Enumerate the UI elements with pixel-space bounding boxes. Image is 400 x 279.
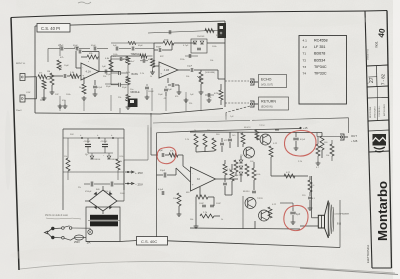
- svg-text:T4: T4: [303, 72, 307, 76]
- svg-text:1N4148: 1N4148: [197, 36, 205, 38]
- svg-text:+ 25V: + 25V: [135, 171, 143, 175]
- svg-text:– 25V: – 25V: [135, 183, 143, 187]
- svg-text:4.1: 4.1: [303, 39, 308, 43]
- svg-text:TIP33: TIP33: [257, 198, 263, 200]
- svg-text:RC4558: RC4558: [314, 39, 328, 43]
- svg-text:4.1B: 4.1B: [164, 68, 170, 72]
- svg-text:1µF: 1µF: [168, 89, 172, 91]
- svg-text:63µF: 63µF: [106, 74, 112, 76]
- svg-text:10µF: 10µF: [64, 65, 70, 67]
- svg-text:25t: 25t: [78, 186, 81, 189]
- svg-text:8.2k: 8.2k: [120, 156, 124, 158]
- svg-text:1M: 1M: [47, 71, 50, 73]
- svg-text:4µF: 4µF: [296, 213, 301, 216]
- svg-text:APPROVATO: APPROVATO: [383, 103, 386, 116]
- svg-text:BD678: BD678: [314, 52, 325, 56]
- svg-text:Montarbo: Montarbo: [375, 181, 390, 241]
- svg-text:30µF: 30µF: [234, 175, 239, 177]
- svg-text:47µF: 47µF: [300, 139, 306, 141]
- svg-text:TREBLE: TREBLE: [131, 53, 141, 56]
- svg-text:1M: 1M: [47, 79, 50, 81]
- svg-text:LOW: LOW: [26, 92, 31, 94]
- svg-text:100P: 100P: [216, 203, 221, 205]
- svg-text:ELETTRONICA: ELETTRONICA: [366, 245, 370, 263]
- svg-text:10P: 10P: [55, 94, 59, 96]
- svg-text:+: +: [192, 183, 194, 187]
- svg-text:TIP34C: TIP34C: [314, 65, 327, 69]
- svg-text:T3: T3: [303, 65, 307, 69]
- svg-text:OGGETTO: OGGETTO: [368, 49, 370, 60]
- svg-text:63µF: 63µF: [138, 45, 144, 47]
- svg-text:T1: T1: [303, 52, 307, 56]
- svg-text:63µF: 63µF: [73, 45, 79, 47]
- svg-text:ECHO: ECHO: [261, 78, 272, 82]
- svg-text:OUT: OUT: [351, 134, 357, 138]
- svg-text:LOUDSPEAKER: LOUDSPEAKER: [334, 213, 350, 216]
- svg-text:INPUT H.: INPUT H.: [16, 63, 26, 65]
- svg-text:15k: 15k: [64, 156, 67, 158]
- svg-text:50V: 50V: [70, 134, 74, 136]
- svg-text:100µF: 100µF: [148, 91, 154, 93]
- svg-text:+15: +15: [303, 126, 308, 130]
- svg-text:4.7µF: 4.7µF: [183, 45, 189, 47]
- svg-text:1µF: 1µF: [102, 66, 106, 68]
- svg-text:BD534: BD534: [243, 191, 250, 193]
- svg-text:REVISIONE: REVISIONE: [370, 106, 372, 118]
- svg-text:27: 27: [369, 77, 375, 83]
- svg-text:LF 351: LF 351: [314, 45, 325, 49]
- svg-text:(VOL OUT): (VOL OUT): [261, 84, 273, 87]
- svg-text:47P: 47P: [224, 140, 228, 142]
- svg-text:7 - 82: 7 - 82: [381, 73, 386, 85]
- svg-text:RETURN: RETURN: [261, 100, 276, 104]
- svg-text:10µF: 10µF: [158, 94, 164, 96]
- svg-text:0.1µF: 0.1µF: [158, 189, 164, 191]
- svg-text:mod.: mod.: [375, 41, 379, 48]
- svg-text:4.7µF: 4.7µF: [58, 45, 64, 47]
- svg-text:(ECHO IN): (ECHO IN): [261, 106, 273, 109]
- svg-text:33µF: 33µF: [120, 59, 126, 61]
- svg-text:+: +: [160, 71, 162, 75]
- svg-text:-: -: [160, 64, 161, 68]
- svg-text:4700µF: 4700µF: [84, 141, 92, 143]
- svg-text:(VOLUME): (VOLUME): [205, 72, 215, 74]
- svg-text:4.2: 4.2: [303, 45, 308, 49]
- svg-text:0.1: 0.1: [113, 56, 116, 58]
- svg-text:100P: 100P: [199, 203, 204, 205]
- svg-text:10µF: 10µF: [187, 66, 193, 68]
- svg-text:C.S. 40C: C.S. 40C: [141, 239, 157, 244]
- svg-text:-: -: [82, 65, 83, 69]
- svg-text:250V: 250V: [74, 241, 80, 244]
- svg-text:8 Ω: 8 Ω: [337, 222, 341, 226]
- svg-text:1N4004: 1N4004: [94, 159, 100, 161]
- svg-text:4700µF: 4700µF: [85, 191, 92, 193]
- svg-text:25mV: 25mV: [16, 110, 22, 112]
- svg-text:+: +: [82, 73, 84, 77]
- svg-text:FOOT: FOOT: [216, 35, 223, 37]
- svg-text:22k: 22k: [189, 103, 192, 105]
- svg-text:100k: 100k: [256, 174, 260, 176]
- svg-text:33µF: 33µF: [160, 170, 166, 172]
- svg-text:4700µF: 4700µF: [101, 141, 109, 143]
- svg-text:1µF: 1µF: [159, 150, 163, 152]
- svg-text:33µF: 33µF: [106, 86, 112, 88]
- svg-text:-: -: [192, 172, 193, 176]
- svg-text:DISEGNATO: DISEGNATO: [374, 106, 377, 118]
- svg-text:+ 6dB: + 6dB: [351, 140, 358, 143]
- svg-text:15mV con tutto il resto: 15mV con tutto il resto: [45, 214, 69, 217]
- svg-text:560P: 560P: [156, 47, 162, 49]
- svg-text:C.S. 40 PI: C.S. 40 PI: [41, 26, 60, 31]
- svg-text:47µF: 47µF: [97, 87, 103, 89]
- svg-text:TIP33C: TIP33C: [314, 72, 327, 76]
- svg-text:4.1A: 4.1A: [86, 70, 92, 74]
- svg-text:33µF: 33µF: [122, 87, 128, 89]
- svg-text:BD534: BD534: [314, 58, 325, 62]
- svg-text:T2: T2: [303, 58, 307, 62]
- svg-text:MIDDLE: MIDDLE: [131, 91, 140, 94]
- svg-text:82P: 82P: [160, 56, 164, 58]
- svg-text:CONTROLL.: CONTROLL.: [379, 105, 381, 117]
- svg-text:63µF: 63µF: [91, 45, 97, 47]
- svg-text:BASS: BASS: [132, 73, 139, 76]
- svg-text:X2: X2: [197, 177, 201, 181]
